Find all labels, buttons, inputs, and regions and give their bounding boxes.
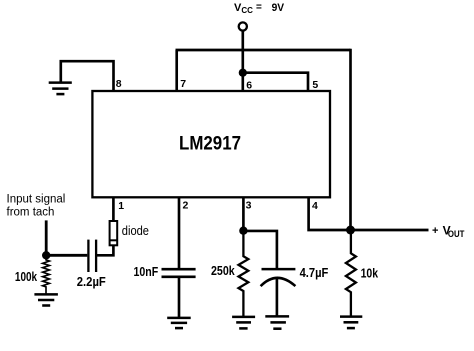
svg-text:100k: 100k — [15, 270, 37, 284]
wire input drop — [45, 220, 48, 255]
wire pin 3 — [242, 197, 245, 230]
ground GND-A (pin 8) — [49, 83, 72, 95]
wire right drop rail to Vout node — [349, 49, 352, 230]
Vcc terminal circle — [239, 22, 247, 30]
svg-text:5: 5 — [312, 79, 318, 91]
svg-text:Input signal: Input signal — [7, 193, 66, 205]
resistor R3 10k — [346, 230, 356, 317]
wire C1 to diode — [96, 245, 113, 255]
wire Vout — [351, 229, 429, 232]
capacitor C3 4.7uF top plate — [262, 268, 296, 271]
junction dot Vcc node — [239, 69, 247, 77]
wire pin3 node to C3 — [243, 231, 277, 269]
diode D1 (package symbol) — [110, 221, 118, 245]
svg-text:6: 6 — [246, 79, 252, 91]
svg-text:2: 2 — [183, 199, 189, 211]
svg-text:from tach: from tach — [7, 206, 55, 218]
resistor R2 250k — [239, 231, 249, 317]
svg-text:CC: CC — [241, 6, 253, 15]
ground GND-C (C2) — [167, 318, 191, 328]
C3 curved plate — [261, 278, 296, 286]
junction dot pin 3 node — [239, 227, 247, 235]
wire C2 to ground — [178, 277, 181, 318]
wire branch to pin 5 — [243, 73, 308, 91]
svg-text:9V: 9V — [272, 2, 285, 14]
junction dot input node — [42, 251, 50, 259]
svg-text:LM2917: LM2917 — [179, 133, 241, 155]
svg-text:10nF: 10nF — [134, 265, 159, 279]
svg-text:7: 7 — [180, 78, 186, 90]
junction dot Vout node — [346, 226, 355, 235]
svg-text:4.7µF: 4.7µF — [300, 266, 329, 280]
wire Vcc to pin 6 — [241, 31, 244, 91]
svg-text:diode: diode — [122, 224, 149, 238]
wire pin 4 to Vout node — [309, 197, 351, 230]
capacitor C1 2.2uF — [88, 240, 96, 272]
wire top rail — [176, 49, 351, 52]
ground GND-E (C3) — [265, 316, 289, 328]
capacitor C2 10nF — [162, 269, 196, 277]
svg-text:8: 8 — [116, 78, 122, 90]
resistor R1 100k — [43, 255, 50, 294]
ground GND-B (R1) — [34, 294, 58, 305]
wire ground to pin 8 — [61, 61, 114, 91]
ground GND-F (R3) — [340, 317, 362, 329]
svg-text:3: 3 — [246, 199, 252, 211]
svg-text:=: = — [256, 2, 262, 13]
svg-text:10k: 10k — [361, 266, 379, 280]
op-amp U1 LM2917 IC body — [92, 91, 330, 197]
svg-text:250k: 250k — [211, 264, 235, 278]
wire pin 7 stub — [175, 50, 178, 91]
wire input node to C1 — [46, 254, 87, 257]
svg-text:2.2µF: 2.2µF — [77, 275, 106, 289]
diode band — [110, 239, 118, 241]
svg-text:4: 4 — [312, 200, 318, 212]
wire pin 2 to C2 — [178, 197, 181, 269]
svg-text:OUT: OUT — [448, 229, 465, 239]
ground GND-D (R2) — [232, 317, 255, 329]
svg-text:1: 1 — [118, 200, 124, 212]
svg-text:+: + — [432, 225, 438, 237]
wire pin 1 — [112, 197, 115, 221]
wire C3 to ground — [276, 279, 279, 317]
